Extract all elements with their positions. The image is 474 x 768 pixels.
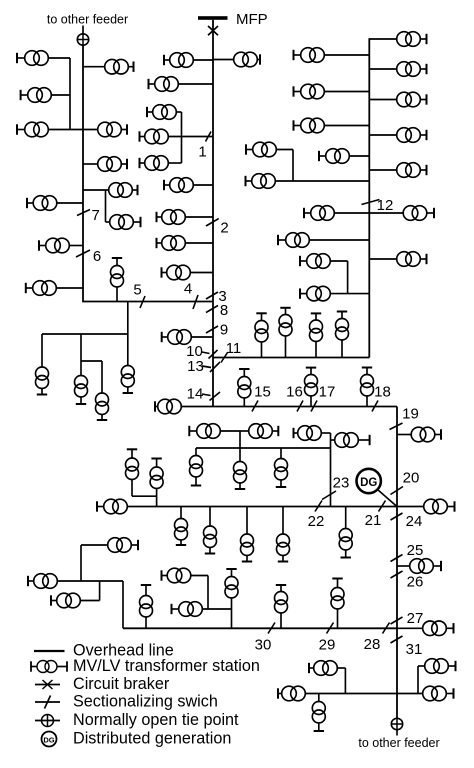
- MV/LV transformer station: [238, 369, 251, 407]
- MV/LV transformer station: [249, 424, 279, 439]
- svg-text:28: 28: [364, 636, 381, 653]
- busbar MFP: [198, 16, 228, 20]
- svg-text:MV/LV transformer station: MV/LV transformer station: [73, 657, 260, 675]
- svg-text:to other feeder: to other feeder: [47, 13, 128, 27]
- MV/LV transformer station: [28, 574, 57, 589]
- wire: right bus (vertical): [368, 38, 370, 357]
- wire: [418, 665, 425, 667]
- MV/LV transformer station: [397, 92, 427, 107]
- MV/LV transformer station: [234, 462, 247, 490]
- legend: MV/LV transformer text: [73, 657, 260, 675]
- sectionalizing switch 21: [379, 501, 386, 512]
- MV/LV transformer station: [157, 210, 186, 225]
- MV/LV transformer station: [98, 157, 127, 172]
- sectionalizing switch 29: [327, 623, 334, 634]
- svg-text:25: 25: [407, 542, 424, 559]
- MV/LV transformer station: [246, 142, 276, 157]
- MV/LV transformer station: [335, 433, 370, 448]
- legend: normally open tie point text: [73, 711, 239, 729]
- wire: [397, 627, 423, 629]
- wire: right spine x=397: [396, 407, 398, 719]
- wire: [48, 57, 70, 59]
- text: to other feeder (bottom): [358, 736, 439, 750]
- sectionalizing switch 27: [391, 617, 403, 624]
- svg-text:DG: DG: [43, 735, 54, 744]
- normally open tie point (bottom): [391, 718, 402, 729]
- normally open tie point (top): [77, 34, 88, 45]
- wire: [81, 544, 108, 546]
- wire: [369, 68, 396, 70]
- node label 17: [319, 384, 336, 401]
- wire: [334, 212, 369, 214]
- MV/LV transformer station: [190, 456, 203, 486]
- wire: drop x=240: [239, 431, 241, 462]
- MV/LV transformer station: [105, 59, 134, 74]
- wire: [193, 59, 213, 61]
- wire: [330, 293, 369, 295]
- wire: drop x=196: [195, 448, 197, 456]
- MV/LV transformer station: [403, 206, 434, 221]
- wire: [48, 129, 97, 131]
- MV/LV transformer station: [361, 368, 374, 407]
- sectionalizing switch 10: [209, 350, 218, 359]
- MV/LV transformer station: [294, 426, 322, 441]
- sectionalizing switch 9: [206, 326, 218, 333]
- wire: [83, 189, 109, 191]
- MV/LV transformer station: [397, 163, 427, 178]
- wire y=406.5: [181, 406, 397, 408]
- wire: drop x=345.7: [345, 507, 347, 529]
- svg-text:1: 1: [198, 144, 206, 161]
- wire: [309, 239, 369, 241]
- MV/LV transformer station: [424, 499, 455, 514]
- wire y=581: [57, 580, 123, 582]
- MV/LV transformer station: [278, 686, 305, 701]
- wire: [324, 125, 369, 127]
- node label 28: [364, 636, 381, 653]
- MV/LV transformer station: [162, 265, 191, 280]
- MV/LV transformer station: [157, 236, 186, 251]
- MV/LV transformer station: [155, 399, 181, 414]
- node label 30: [255, 637, 272, 654]
- MV/LV transformer station: [51, 593, 80, 608]
- wire: [69, 245, 83, 247]
- distributed generation DG: [357, 469, 381, 493]
- MV/LV transformer station: [97, 499, 127, 514]
- wire: [369, 134, 396, 136]
- wire: [369, 169, 396, 171]
- MV/LV transformer station: [164, 178, 193, 193]
- MV/LV transformer station: [172, 602, 203, 617]
- sectionalizing switch 2: [206, 219, 219, 226]
- label MFP: [236, 11, 268, 28]
- wire y=506.5: [127, 506, 397, 508]
- svg-text:DG: DG: [360, 477, 377, 489]
- svg-text:7: 7: [92, 207, 100, 224]
- MV/LV transformer station: [17, 122, 48, 137]
- MV/LV transformer station: [21, 88, 52, 103]
- wire: drop x=81: [80, 334, 82, 376]
- wire: riser x=418: [417, 666, 419, 694]
- svg-text:2: 2: [220, 220, 228, 237]
- svg-text:6: 6: [93, 248, 101, 265]
- sectionalizing switch 15: [252, 401, 258, 412]
- node label 27: [407, 610, 424, 627]
- MV/LV transformer station: [397, 32, 427, 47]
- sectionalizing switch 23: [322, 491, 336, 500]
- wire: drop x=42: [41, 334, 43, 367]
- MV/LV transformer station: [17, 51, 48, 66]
- circuit breaker at MFP: [208, 26, 218, 35]
- MV/LV transformer station: [110, 215, 141, 230]
- sectionalizing switch 7: [77, 210, 90, 216]
- svg-text:11: 11: [226, 340, 242, 357]
- MV/LV transformer station: [397, 128, 427, 143]
- svg-text:15: 15: [254, 384, 271, 401]
- wire: [397, 506, 424, 508]
- MV/LV transformer station: [164, 53, 193, 68]
- MV/LV transformer station: [241, 534, 254, 562]
- wire: [213, 59, 234, 61]
- dash for node 14: [202, 394, 211, 396]
- sectionalizing switch 6: [76, 250, 90, 257]
- MV/LV transformer station: [234, 52, 260, 67]
- wire: [178, 83, 213, 85]
- legend: MV/LV transformer symbol: [31, 661, 67, 673]
- wire y=628 (bottom): [123, 627, 397, 629]
- node label 31: [406, 641, 423, 658]
- legend: overhead line text: [73, 642, 174, 660]
- sectionalizing switch 8: [206, 306, 218, 313]
- sectionalizing switch 18: [372, 401, 378, 412]
- node label 24: [406, 513, 423, 530]
- svg-text:31: 31: [406, 641, 423, 658]
- svg-text:Circuit braker: Circuit braker: [73, 675, 170, 693]
- svg-text:5: 5: [133, 282, 141, 299]
- node label 25: [407, 542, 424, 559]
- wire: riser x=105.5: [105, 190, 107, 222]
- sectionalizing switch 16: [297, 401, 303, 412]
- MV/LV transformer station: [300, 286, 330, 301]
- svg-text:MFP: MFP: [236, 11, 268, 28]
- MV/LV transformer station: [36, 367, 49, 395]
- wire: [168, 136, 213, 138]
- node label 7: [92, 207, 100, 224]
- wire: [185, 216, 213, 218]
- svg-text:Normally open tie point: Normally open tie point: [73, 711, 239, 729]
- sectionalizing switch 5: [140, 296, 145, 308]
- sectionalizing switch 3: [206, 292, 218, 299]
- node label 12: [377, 197, 394, 214]
- node label 11: [226, 340, 242, 357]
- MV/LV transformer station: [425, 659, 456, 674]
- MV/LV transformer station: [310, 313, 323, 357]
- svg-text:23: 23: [333, 475, 350, 492]
- svg-text:26: 26: [407, 574, 424, 591]
- svg-text:22: 22: [308, 513, 325, 530]
- wire: [397, 565, 410, 567]
- wire: [190, 272, 213, 274]
- node label 15: [254, 384, 271, 401]
- MV/LV transformer station: [397, 62, 427, 77]
- legend: sectionalizing switch text: [73, 693, 218, 711]
- MV/LV transformer station: [397, 252, 427, 267]
- node label 22: [308, 513, 325, 530]
- svg-text:16: 16: [286, 384, 303, 401]
- legend: circuit breaker text: [73, 675, 170, 693]
- wire: [176, 111, 181, 113]
- svg-text:19: 19: [402, 406, 419, 423]
- wire: riser x=345.4: [344, 668, 346, 694]
- wire: drop x=247: [246, 507, 248, 535]
- wire: [369, 258, 396, 260]
- MV/LV transformer station: [189, 424, 220, 439]
- wire: [57, 202, 83, 204]
- wire: [337, 667, 345, 669]
- wire: [191, 336, 213, 338]
- legend: distributed generation text: [73, 730, 231, 748]
- wire: riser x=330.5: [330, 433, 332, 507]
- MV/LV transformer station: [294, 48, 325, 63]
- sectionalizing switch 14: [210, 392, 221, 401]
- node label 6: [93, 248, 101, 265]
- svg-text:8: 8: [220, 302, 228, 319]
- sectionalizing switch 4: [193, 295, 198, 309]
- wire: [191, 575, 208, 577]
- wire: riser x=347.6: [347, 261, 349, 294]
- svg-text:Distributed generation: Distributed generation: [73, 730, 231, 748]
- wire: [193, 184, 213, 186]
- legend: circuit breaker symbol: [35, 680, 60, 689]
- sectionalizing switch 1: [206, 132, 212, 142]
- wire: riser x=123: [122, 581, 124, 628]
- sectionalizing switch 13: [210, 362, 220, 372]
- MV/LV transformer station: [147, 105, 176, 120]
- svg-text:21: 21: [365, 512, 382, 529]
- MV/LV transformer station: [423, 686, 454, 701]
- wire y=693.5: [305, 693, 423, 695]
- node label 9: [220, 322, 228, 339]
- node label 5: [133, 282, 141, 299]
- svg-text:12: 12: [377, 197, 394, 214]
- node label 23: [333, 475, 350, 492]
- svg-text:to other feeder: to other feeder: [358, 736, 439, 750]
- sectionalizing switch 24: [391, 513, 403, 520]
- node label 29: [319, 637, 336, 654]
- MV/LV transformer station: [162, 330, 192, 345]
- MV/LV transformer station: [246, 174, 276, 189]
- MV/LV transformer station: [111, 258, 124, 302]
- wire y=357.5: [213, 357, 369, 359]
- wire: drop x=283: [282, 507, 284, 535]
- MV/LV transformer station: [108, 538, 138, 553]
- wire: [240, 430, 249, 432]
- MV/LV transformer station: [98, 122, 127, 137]
- node label 14: [187, 386, 204, 403]
- MV/LV transformer station: [126, 449, 157, 496]
- wire: main feeder (vertical): [212, 20, 214, 407]
- legend: overhead line symbol: [34, 650, 65, 652]
- wire y=334: [42, 333, 128, 335]
- wire y=448: [196, 447, 331, 449]
- MV/LV transformer station: [26, 281, 57, 296]
- MV/LV transformer station: [305, 368, 318, 407]
- dash for node 13: [202, 366, 211, 368]
- legend: distributed generation symbol: [42, 732, 57, 747]
- MV/LV transformer station: [278, 233, 309, 248]
- MV/LV transformer station: [275, 459, 288, 488]
- MV/LV transformer station: [75, 376, 88, 405]
- svg-text:30: 30: [255, 637, 272, 654]
- svg-text:18: 18: [374, 384, 391, 401]
- node label 10: [186, 343, 203, 360]
- wire: drop x=127.8 lower: [127, 334, 129, 366]
- svg-text:4: 4: [184, 281, 192, 298]
- wire: [349, 155, 369, 157]
- MV/LV transformer station: [140, 585, 153, 628]
- MV/LV transformer station: [204, 526, 217, 554]
- wire: left loop bottom y=301.5: [82, 301, 213, 303]
- wire: stub below bottom tie point: [396, 730, 398, 736]
- svg-text:24: 24: [406, 513, 423, 530]
- svg-text:9: 9: [220, 322, 228, 339]
- wire: drop x=181: [180, 507, 182, 519]
- wire: [83, 163, 98, 165]
- node label 1: [198, 144, 206, 161]
- wire: [369, 99, 396, 101]
- wire: [51, 94, 70, 96]
- node label 20: [403, 470, 420, 487]
- MV/LV transformer station: [175, 519, 188, 546]
- MV/LV transformer station: [319, 149, 349, 164]
- legend: normally open tie point symbol: [35, 715, 60, 727]
- sectionalizing switch 28: [383, 623, 390, 634]
- MV/LV transformer station: [275, 585, 288, 628]
- node label 19: [402, 406, 419, 423]
- sectionalizing switch 11: [221, 353, 228, 363]
- MV/LV transformer station: [331, 579, 344, 629]
- wire: [220, 430, 240, 432]
- MV/LV transformer station: [410, 559, 441, 574]
- MV/LV transformer station: [162, 568, 191, 583]
- wire: riser x=293: [292, 150, 294, 182]
- wire: [397, 434, 411, 436]
- wire: [83, 66, 105, 68]
- wire y=181: [275, 180, 369, 182]
- wire: [331, 439, 335, 441]
- sectionalizing switch 30: [268, 623, 275, 634]
- wire: [276, 149, 293, 151]
- node label 21: [365, 512, 382, 529]
- wire: riser x=70: [69, 58, 71, 130]
- dash for node 10: [202, 352, 210, 354]
- svg-text:29: 29: [319, 637, 336, 654]
- MV/LV transformer station: [225, 569, 238, 628]
- sectionalizing switch 25: [391, 555, 403, 562]
- MV/LV transformer station: [309, 661, 337, 676]
- MV/LV transformer station: [294, 84, 325, 99]
- MV/LV transformer station: [121, 366, 134, 394]
- wire: [80, 600, 99, 602]
- MV/LV transformer station: [300, 254, 330, 269]
- text: to other feeder (top): [47, 13, 128, 27]
- MV/LV transformer station: [336, 312, 349, 358]
- MV/LV transformer station: [411, 427, 441, 442]
- wire: drop x=127.8: [127, 302, 129, 335]
- MV/LV transformer station: [149, 77, 179, 92]
- svg-text:17: 17: [319, 384, 336, 401]
- MV/LV transformer station: [39, 238, 69, 253]
- sectionalizing switch 19: [390, 423, 403, 430]
- wire: [185, 242, 213, 244]
- MV/LV transformer station: [27, 196, 57, 211]
- node label 26: [407, 574, 424, 591]
- svg-text:27: 27: [407, 610, 424, 627]
- wire: [321, 432, 330, 434]
- node label 4: [184, 281, 192, 298]
- MV/LV transformer station: [109, 183, 138, 198]
- wire: [106, 221, 110, 223]
- MV/LV transformer station: [312, 702, 325, 732]
- wire: stub below top tie point text: [82, 26, 84, 34]
- MV/LV transformer station: [279, 308, 292, 358]
- sectionalizing switch 22: [315, 501, 322, 512]
- legend: sectionalizing switch symbol: [35, 696, 60, 709]
- MV/LV transformer station: [294, 118, 325, 133]
- wire: [168, 162, 181, 164]
- sectionalizing switch 20: [391, 487, 404, 495]
- wire: [369, 212, 403, 214]
- wire: [324, 54, 369, 56]
- wire: riser x=81: [80, 545, 82, 581]
- node label 2: [220, 220, 228, 237]
- MV/LV transformer station: [277, 534, 290, 562]
- wire: drop x=102: [101, 361, 103, 393]
- sectionalizing switch 12: [362, 200, 380, 205]
- wire: riser x=99.6: [99, 581, 101, 601]
- svg-text:13: 13: [187, 358, 204, 375]
- MV/LV transformer station: [140, 156, 169, 171]
- sectionalizing switch 17: [311, 401, 317, 412]
- wire: drop x=210: [209, 507, 211, 527]
- svg-text:Sectionalizing swich: Sectionalizing swich: [73, 693, 218, 711]
- wire: drop x=318.8: [318, 694, 320, 702]
- wire y=609: [202, 608, 231, 610]
- wire: riser x=181.5: [181, 112, 183, 163]
- wire: branch y=361: [81, 360, 102, 362]
- wire: left feeder (vertical): [82, 45, 84, 301]
- wire: [56, 287, 83, 289]
- node label 16: [286, 384, 303, 401]
- wire: DG tap (diagonal): [378, 490, 398, 508]
- wire: [369, 38, 396, 40]
- node label 3: [218, 288, 226, 305]
- sectionalizing switch 31: [391, 636, 403, 643]
- MV/LV transformer station: [423, 621, 454, 636]
- MV/LV transformer station: [304, 206, 334, 221]
- svg-text:14: 14: [187, 386, 204, 403]
- MV/LV transformer station: [96, 393, 109, 420]
- MV/LV transformer station: [339, 529, 352, 558]
- wire: [330, 260, 347, 262]
- node label 18: [374, 384, 391, 401]
- wire: riser x=208: [207, 576, 209, 610]
- node label 8: [220, 302, 228, 319]
- svg-text:20: 20: [403, 470, 420, 487]
- node label 13: [187, 358, 204, 375]
- sectionalizing switch 26: [391, 571, 403, 578]
- wire: [324, 91, 369, 93]
